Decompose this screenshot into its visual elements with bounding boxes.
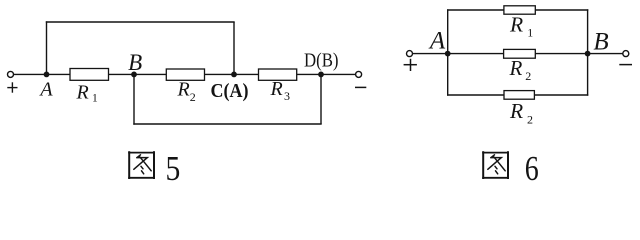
wire main left: terminal to R1 xyxy=(14,73,71,75)
wire top rail xyxy=(447,9,588,11)
wire top horizontal A to C xyxy=(46,21,235,23)
terminal + (left open circle) xyxy=(407,51,413,57)
wire vertical through B xyxy=(587,9,589,95)
label - (right circuit) xyxy=(619,64,632,66)
wire R2 to R3 xyxy=(205,73,259,75)
wire vertical up to node D xyxy=(320,74,322,124)
node B xyxy=(131,72,137,78)
svg-text:2: 2 xyxy=(525,69,531,83)
svg-text:1: 1 xyxy=(527,26,533,40)
wire B to right terminal xyxy=(588,53,623,55)
svg-text:R: R xyxy=(76,82,89,104)
svg-text:R: R xyxy=(270,78,283,100)
svg-text:1: 1 xyxy=(92,93,98,105)
svg-text:R: R xyxy=(509,56,523,80)
label + (right circuit) xyxy=(404,59,417,71)
wire R3 to right terminal xyxy=(297,73,356,75)
node B (right circuit) xyxy=(585,51,591,57)
wire vertical from node B down xyxy=(133,74,135,124)
node C xyxy=(231,72,237,78)
caption Fig 6: hanzi TU (drawn) xyxy=(482,151,509,179)
svg-text:6: 6 xyxy=(525,149,539,188)
resistor R2 (middle) xyxy=(504,49,536,58)
terminal - (right open circle) xyxy=(356,71,362,77)
wire R1 to R2 xyxy=(109,73,167,75)
svg-text:A: A xyxy=(428,28,446,55)
node A xyxy=(44,72,50,78)
label - (right) xyxy=(355,86,366,88)
wire vertical from node A up xyxy=(46,21,48,74)
caption Fig 5: hanzi TU (drawn) xyxy=(128,151,155,179)
wire bottom rail xyxy=(447,94,588,96)
svg-text:3: 3 xyxy=(284,89,290,103)
svg-text:2: 2 xyxy=(190,90,196,104)
resistor R3 xyxy=(259,69,297,80)
svg-text:2: 2 xyxy=(527,113,533,127)
svg-text:R: R xyxy=(177,79,190,101)
wire bottom horizontal B to D xyxy=(133,123,321,125)
svg-text:5: 5 xyxy=(166,149,181,188)
label + (left) xyxy=(7,82,17,92)
resistor R1 (top) xyxy=(504,6,535,14)
terminal + (left open circle) xyxy=(8,71,14,77)
svg-text:R: R xyxy=(509,13,523,37)
wire left terminal to A xyxy=(413,53,448,55)
resistor R2 (bottom) xyxy=(504,91,534,100)
resistor R1 xyxy=(70,69,109,81)
svg-text:D(B): D(B) xyxy=(304,49,339,71)
svg-text:R: R xyxy=(509,99,523,123)
svg-text:B: B xyxy=(128,50,142,75)
wire A to middle R2 xyxy=(448,53,504,55)
resistor R2 xyxy=(166,69,204,80)
node D xyxy=(318,72,324,78)
wire vertical down to node C xyxy=(233,22,235,74)
wire middle R2 to B xyxy=(535,53,587,55)
svg-text:C(A): C(A) xyxy=(211,80,249,102)
svg-text:B: B xyxy=(593,28,608,55)
wire vertical through A (top to bottom rail) xyxy=(447,9,449,95)
node A (right circuit) xyxy=(445,51,451,57)
svg-text:A: A xyxy=(38,79,53,101)
terminal - (right open circle) xyxy=(623,51,629,57)
